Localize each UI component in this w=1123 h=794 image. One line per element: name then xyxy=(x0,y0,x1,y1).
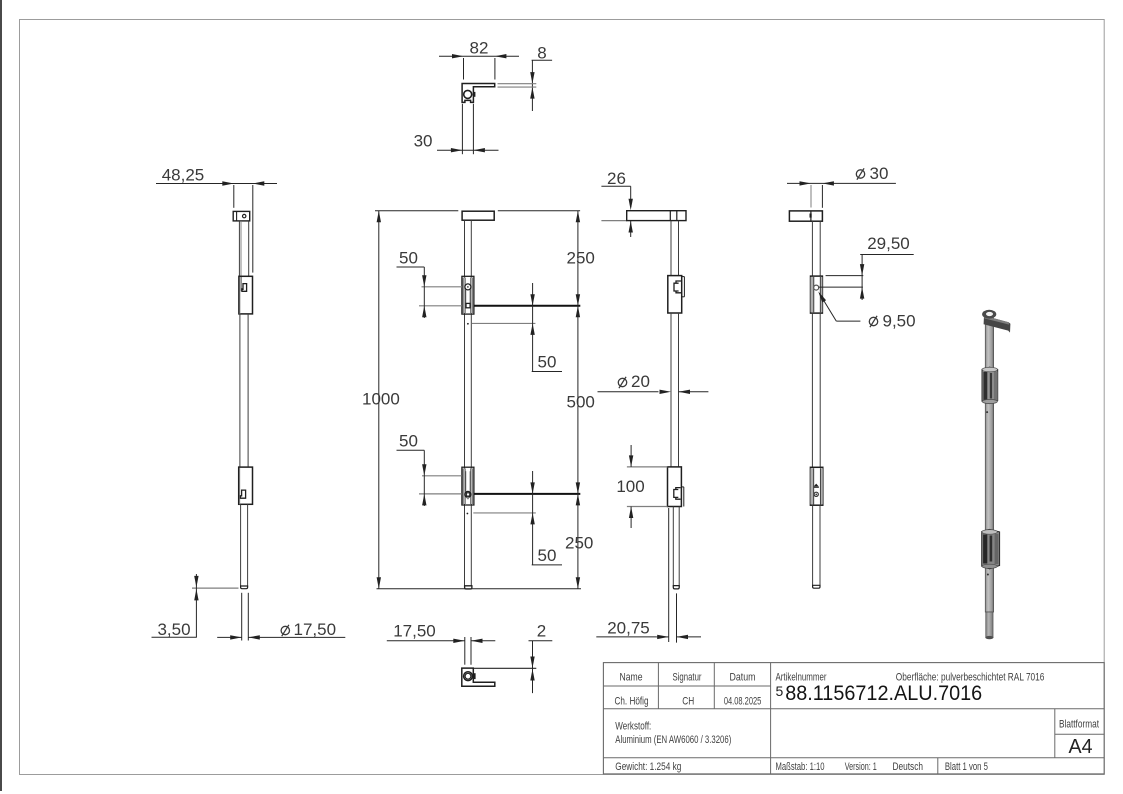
svg-text:Deutsch: Deutsch xyxy=(893,761,924,773)
view1 dimension 3,50 xyxy=(192,587,239,589)
view2 upper reference lines left xyxy=(422,286,463,288)
title block outer border xyxy=(603,663,1104,774)
top view detent tab xyxy=(473,92,475,97)
view4 top cap bar xyxy=(789,211,822,221)
view4 lower bracket detent arrow xyxy=(814,484,819,487)
view2 rod xyxy=(464,220,466,586)
svg-text:2: 2 xyxy=(537,622,546,641)
view3 rod bottom tip xyxy=(673,586,679,589)
view2 dimension 50 upper right xyxy=(532,283,534,372)
view4 dimension diameter 30 xyxy=(856,168,864,179)
svg-text:88.1156712.ALU.7016: 88.1156712.ALU.7016 xyxy=(785,681,982,705)
view3 upper latch hook xyxy=(674,281,681,293)
view2 upper bracket xyxy=(462,276,474,314)
view2 top cap xyxy=(462,211,494,220)
svg-text:Version: 1: Version: 1 xyxy=(845,761,877,773)
dimension 2 bottom view xyxy=(474,667,537,669)
3d view dot below lower bracket xyxy=(987,574,989,576)
bottom view extension lines xyxy=(464,637,466,665)
svg-text:Aluminium (EN AW6060 / 3.3206): Aluminium (EN AW6060 / 3.3206) xyxy=(615,734,731,746)
svg-text:82: 82 xyxy=(470,39,489,58)
view2 dot below upper bracket xyxy=(467,323,469,325)
svg-text:50: 50 xyxy=(538,353,557,372)
view4 rod lower xyxy=(812,505,814,586)
3d view handle arm xyxy=(984,316,1011,333)
svg-text:5: 5 xyxy=(776,683,784,699)
svg-text:50: 50 xyxy=(399,249,418,268)
view3 lower latch hook xyxy=(674,488,681,500)
svg-text:26: 26 xyxy=(607,169,626,188)
svg-text:1000: 1000 xyxy=(362,390,400,409)
3d view lower bracket xyxy=(982,529,1000,568)
view2 rod bottom tip xyxy=(465,586,472,589)
view1 dimension diameter 17,50 xyxy=(241,593,243,641)
svg-text:04.08.2025: 04.08.2025 xyxy=(724,695,762,707)
view3 rod mid xyxy=(670,313,672,467)
svg-text:Signatur: Signatur xyxy=(673,671,702,683)
view4 rod bottom tip xyxy=(813,585,820,588)
dimension 82 top view xyxy=(439,55,519,57)
view2 dot below lower bracket xyxy=(467,513,469,515)
view4 leader diameter 9,50 xyxy=(836,320,860,322)
view1 rod upper section xyxy=(238,221,240,276)
3d view rod bottom pin xyxy=(986,612,993,638)
svg-text:250: 250 xyxy=(565,534,593,553)
top view rod bore circle xyxy=(464,90,472,98)
view2 right dimension line 250/500/250 xyxy=(577,211,579,589)
svg-text:17,50: 17,50 xyxy=(393,622,436,641)
view3 rod upper xyxy=(670,221,672,276)
svg-text:30: 30 xyxy=(414,131,433,150)
view2 lower reference lines left xyxy=(422,475,462,477)
view4 rod mid xyxy=(811,313,813,467)
svg-text:8: 8 xyxy=(537,44,546,63)
svg-text:100: 100 xyxy=(616,477,644,496)
svg-text:17,50: 17,50 xyxy=(294,620,337,639)
view1 middle bracket xyxy=(239,276,253,314)
view3 upper bracket xyxy=(668,276,682,313)
view1 top bracket xyxy=(233,211,250,221)
dimension 17,50 bottom view xyxy=(387,640,465,642)
view2 top reference line xyxy=(375,210,458,212)
svg-text:CH: CH xyxy=(682,695,694,707)
title block grid lines xyxy=(603,685,770,687)
svg-text:Gewicht: 1.254 kg: Gewicht: 1.254 kg xyxy=(615,761,681,773)
view1 rod mid section xyxy=(239,314,241,467)
svg-text:500: 500 xyxy=(567,393,595,412)
dimension 30 top view xyxy=(461,104,463,154)
svg-text:20: 20 xyxy=(631,372,650,391)
svg-text:29,50: 29,50 xyxy=(867,234,910,253)
svg-text:Werkstoff:: Werkstoff: xyxy=(615,721,651,733)
svg-text:50: 50 xyxy=(538,546,557,565)
svg-text:A4: A4 xyxy=(1069,736,1093,758)
view3 top cap bar xyxy=(627,211,686,221)
view1 lower latch hook xyxy=(240,490,245,498)
view1 rod lower section xyxy=(240,504,242,587)
view3 dimension diameter 20 xyxy=(618,377,626,388)
view3 lower bracket xyxy=(668,467,682,507)
view4 rod upper xyxy=(811,221,813,276)
view4 lower bracket xyxy=(810,467,822,505)
view4 hole circle d9,50 xyxy=(814,285,819,290)
svg-text:3,50: 3,50 xyxy=(157,620,190,639)
bottom view part L-shape xyxy=(462,668,495,686)
view2 dimension 50 lower right xyxy=(532,471,534,565)
view2 bottom reference line xyxy=(377,588,582,590)
3d view handle eye ring xyxy=(982,310,996,319)
dimension 8 top view xyxy=(532,59,553,61)
page border left edge xyxy=(0,0,2,791)
3d view dot below upper bracket xyxy=(986,411,988,413)
view1 middle latch hook xyxy=(242,284,247,292)
svg-text:Ch. Höfig: Ch. Höfig xyxy=(615,695,649,707)
svg-text:9,50: 9,50 xyxy=(883,312,916,331)
svg-text:Blatt 1 von 5: Blatt 1 von 5 xyxy=(945,761,988,773)
svg-text:30: 30 xyxy=(870,164,889,183)
view1 lower bracket xyxy=(239,467,253,504)
view2 lower latch bar xyxy=(474,493,580,495)
view3 rod lower xyxy=(672,507,674,588)
view2 dimension 1000 xyxy=(378,211,380,589)
view4 lower bracket hole xyxy=(814,492,818,496)
svg-text:20,75: 20,75 xyxy=(607,619,650,638)
svg-text:48,25: 48,25 xyxy=(162,166,205,185)
svg-text:250: 250 xyxy=(567,249,595,268)
svg-text:Name: Name xyxy=(620,671,643,683)
svg-text:Blattformat: Blattformat xyxy=(1059,719,1099,731)
view1 rod bottom tip xyxy=(241,586,248,589)
view3 dimension 20,75 xyxy=(668,508,670,642)
view4 upper bracket xyxy=(811,276,823,313)
svg-text:Maßstab: 1:10: Maßstab: 1:10 xyxy=(776,761,825,773)
view2 upper latch bar xyxy=(474,305,580,307)
view2 lower bracket xyxy=(462,467,474,505)
svg-text:Datum: Datum xyxy=(730,671,756,683)
bottom view detent tab xyxy=(473,673,475,679)
svg-text:50: 50 xyxy=(399,432,418,451)
bottom view outer ring xyxy=(464,672,473,681)
top view bracket arm L-shape xyxy=(462,84,495,103)
3d view upper bracket xyxy=(982,367,998,403)
